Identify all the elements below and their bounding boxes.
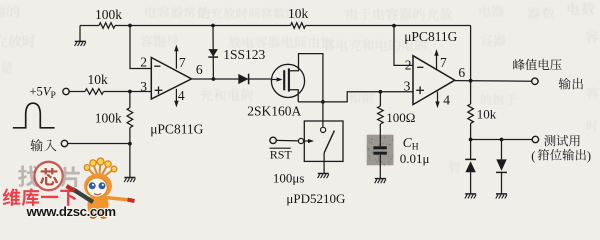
switch U3 (analog switch) bbox=[304, 121, 343, 173]
svg-text:2: 2 bbox=[405, 57, 412, 72]
RST contact circle bbox=[298, 138, 303, 143]
op-amp U2 uPC811G bbox=[404, 49, 466, 108]
terminal input bbox=[31, 139, 68, 151]
ground G6 (D4) bbox=[496, 193, 507, 195]
transistor Q1 2SK160A (FET) bbox=[271, 64, 304, 97]
label RST (overline) bbox=[270, 147, 293, 161]
waveform symbol (input pulse) bbox=[13, 103, 55, 128]
svg-text:7: 7 bbox=[440, 55, 447, 70]
wire to ground G2 bbox=[129, 144, 131, 178]
wire U2 inverting feedback bbox=[394, 26, 413, 66]
svg-text:1SS123: 1SS123 bbox=[223, 47, 265, 62]
node: top bus / U1 feedback bbox=[128, 24, 132, 28]
wire +5Vp lead bbox=[69, 91, 85, 93]
node: input / R4 bottom bbox=[128, 142, 132, 146]
terminal peak output bbox=[513, 59, 583, 90]
resistor R4 100k (vertical) bbox=[95, 108, 133, 128]
svg-text:RST: RST bbox=[270, 147, 293, 161]
node: drain loop / source bus bbox=[321, 100, 325, 104]
wire Q1 drain loop bbox=[290, 54, 323, 102]
wire U1 inverting feedback bbox=[130, 26, 151, 69]
node: source bus / R5 bbox=[379, 90, 383, 94]
terminal RST bbox=[270, 137, 276, 143]
terminal +5Vp bbox=[30, 85, 70, 102]
wire feedback right drop bbox=[470, 26, 472, 81]
ghost bleed-through text (decorative) bbox=[0, 2, 599, 173]
resistor R1 100k (top) bbox=[95, 7, 122, 28]
node: pin3 / R4 junction bbox=[128, 90, 132, 94]
RST control arrow bbox=[304, 140, 310, 142]
ground G3 (switch) bbox=[318, 173, 329, 175]
svg-text:100μs: 100μs bbox=[273, 171, 305, 186]
ground G4 (CH) bbox=[375, 178, 386, 180]
svg-text:6: 6 bbox=[196, 62, 203, 77]
node: test bus / D4 bbox=[500, 138, 504, 142]
wire source bus to U2 pin3 bbox=[298, 92, 413, 102]
ground G2 (input) bbox=[124, 177, 135, 179]
wire top bus bbox=[115, 25, 291, 27]
wire switch stem bbox=[322, 102, 324, 127]
capacitor CH gray highlight box bbox=[367, 135, 394, 166]
node: top bus / D1 bbox=[211, 24, 215, 28]
svg-text:2SK160A: 2SK160A bbox=[247, 104, 301, 119]
svg-text:4: 4 bbox=[443, 92, 450, 107]
wire R6 top stem bbox=[470, 81, 472, 104]
svg-text:100k: 100k bbox=[95, 7, 122, 22]
wire test bus bbox=[471, 139, 533, 141]
svg-text:μPC811G: μPC811G bbox=[404, 29, 457, 44]
terminal test output bbox=[531, 135, 591, 163]
wire RST lead bbox=[276, 139, 298, 142]
node: U1 out / D1 bbox=[212, 77, 216, 81]
resistor R5 100ohm bbox=[378, 92, 416, 125]
svg-text:0.01μ: 0.01μ bbox=[400, 151, 430, 166]
wire Q1 source bbox=[290, 90, 298, 102]
capacitor CH bbox=[373, 124, 386, 178]
resistor R6 10k (right) bbox=[468, 104, 497, 123]
node: U2 out junction bbox=[469, 79, 473, 83]
svg-text:10k: 10k bbox=[288, 6, 309, 21]
svg-text:): ) bbox=[587, 149, 591, 163]
wire R6 to test bus bbox=[470, 123, 472, 139]
wire input lead bbox=[68, 143, 130, 145]
op-amp U1 uPC811G bbox=[140, 45, 203, 108]
ground G1 (top-left) bbox=[75, 26, 86, 47]
diode D2 (series) bbox=[238, 74, 248, 85]
svg-text:10k: 10k bbox=[88, 72, 109, 87]
resistor R3 10k (input) bbox=[85, 72, 108, 94]
svg-text:(: ( bbox=[531, 149, 535, 163]
wire U1 output bbox=[192, 78, 272, 80]
node: top bus / U2 feedback bbox=[392, 24, 396, 28]
diode D4 (clamp, cathode down) bbox=[496, 140, 507, 194]
svg-text:6: 6 bbox=[458, 65, 465, 80]
svg-text:μPC811G: μPC811G bbox=[150, 122, 203, 137]
ground G5 (D3) bbox=[465, 193, 476, 195]
diode D1 1SS123 bbox=[208, 26, 265, 80]
svg-text:μPD5210G: μPD5210G bbox=[286, 191, 345, 206]
svg-text:3: 3 bbox=[404, 78, 411, 93]
svg-text:100Ω: 100Ω bbox=[386, 110, 415, 125]
wire R4 stem bbox=[129, 92, 131, 108]
svg-text:10k: 10k bbox=[477, 106, 497, 121]
svg-text:4: 4 bbox=[178, 88, 185, 103]
svg-text:7: 7 bbox=[179, 55, 186, 70]
watermark logo dzsc bbox=[3, 158, 135, 219]
svg-text:2: 2 bbox=[140, 54, 147, 69]
resistor R2 10k (top) bbox=[288, 6, 309, 29]
wire U2 output bbox=[455, 80, 532, 83]
svg-text:100k: 100k bbox=[95, 110, 122, 125]
diode D3 (clamp, cathode up) bbox=[465, 140, 476, 194]
svg-text:www.dzsc.com: www.dzsc.com bbox=[26, 204, 116, 219]
node: test bus / D3 bbox=[469, 138, 473, 142]
wire R3 to U1 pin3 bbox=[104, 91, 152, 93]
wire top bus left segment bbox=[80, 25, 99, 27]
